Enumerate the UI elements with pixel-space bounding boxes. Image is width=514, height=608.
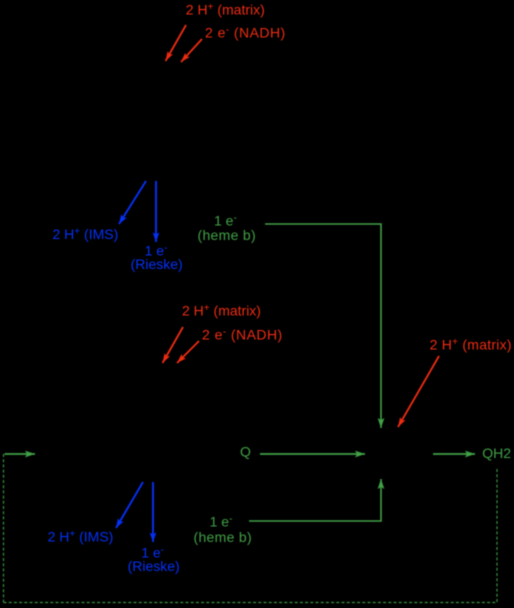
svg-text:2 H+ (matrix): 2 H+ (matrix)	[186, 1, 265, 17]
svg-text:(heme b): (heme b)	[194, 529, 252, 545]
svg-text:(heme b): (heme b)	[198, 227, 256, 243]
svg-text:QH2: QH2	[482, 445, 511, 461]
svg-text:2 e- (NADH): 2 e- (NADH)	[202, 326, 283, 342]
svg-text:2 H+ (matrix): 2 H+ (matrix)	[430, 337, 512, 353]
svg-text:(Rieske): (Rieske)	[128, 558, 180, 574]
svg-text:2 H+ (IMS): 2 H+ (IMS)	[48, 529, 114, 545]
svg-text:(Rieske): (Rieske)	[131, 256, 183, 272]
svg-text:2 H+ (IMS): 2 H+ (IMS)	[53, 226, 119, 242]
svg-text:2 H+ (matrix): 2 H+ (matrix)	[182, 303, 261, 319]
svg-text:1 e-: 1 e-	[210, 514, 233, 530]
svg-text:Q: Q	[240, 443, 251, 459]
svg-text:2 e- (NADH): 2 e- (NADH)	[205, 25, 286, 41]
svg-text:1 e-: 1 e-	[214, 212, 237, 228]
